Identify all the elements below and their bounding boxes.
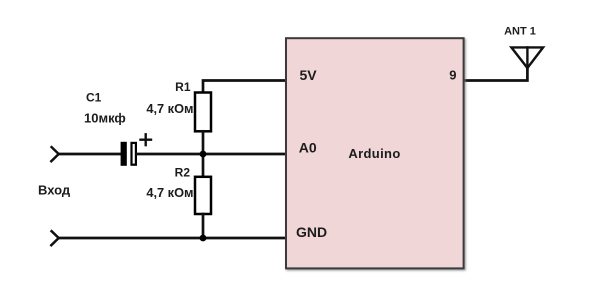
capacitor C1	[121, 142, 136, 166]
wire R2 bottom lead	[202, 214, 205, 238]
wire node A to Arduino pin A0	[203, 153, 286, 156]
wire 5V rail: R1 top to Arduino pin 5V	[203, 81, 286, 94]
svg-text:A0: A0	[299, 139, 317, 155]
svg-text:C1: C1	[86, 91, 102, 105]
junction node GND rail	[200, 235, 207, 242]
svg-text:5V: 5V	[300, 67, 318, 83]
wire ground rail to Arduino pin GND	[59, 237, 286, 240]
input connector bottom chevron	[51, 231, 58, 245]
svg-text:ANT 1: ANT 1	[504, 26, 536, 38]
svg-text:GND: GND	[296, 224, 327, 240]
wire input to capacitor C1	[59, 153, 121, 156]
svg-text:R1: R1	[175, 80, 191, 94]
svg-text:R2: R2	[175, 166, 191, 180]
resistor R2	[195, 177, 211, 214]
junction node A0 divider midpoint	[200, 151, 207, 158]
svg-text:Вход: Вход	[38, 183, 71, 198]
Arduino U1 body	[286, 38, 464, 268]
wire R2 top lead	[202, 154, 205, 177]
wire Arduino pin 9 to antenna	[464, 68, 528, 81]
svg-text:4,7 кОм: 4,7 кОм	[146, 101, 193, 116]
svg-text:10мкф: 10мкф	[84, 111, 126, 126]
svg-text:9: 9	[449, 68, 456, 83]
polarity plus sign of C1	[141, 134, 152, 145]
svg-text:4,7 кОм: 4,7 кОм	[146, 185, 193, 200]
wire capacitor C1 to node A	[137, 153, 203, 156]
svg-text:Arduino: Arduino	[348, 146, 400, 161]
wire R1 bottom lead	[202, 131, 205, 154]
resistor R1	[195, 93, 211, 132]
antenna ANT1	[511, 47, 543, 68]
input connector top chevron	[51, 147, 58, 161]
